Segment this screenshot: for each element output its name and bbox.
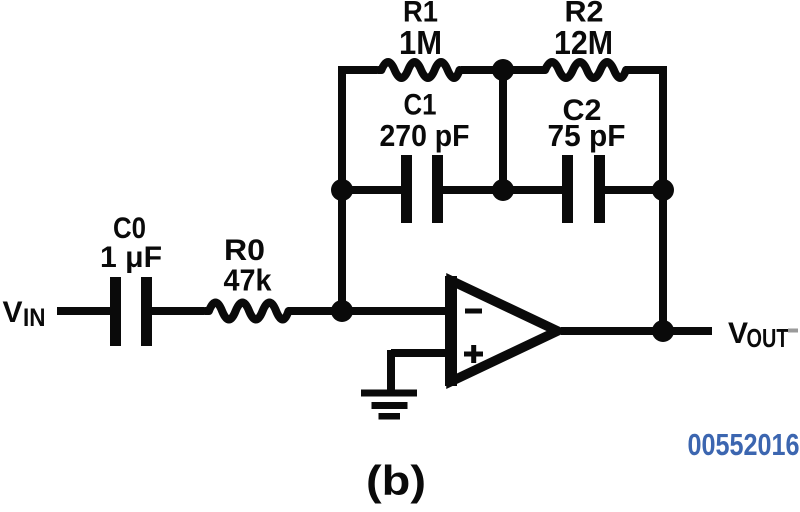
node junction dot A (R1-R2) [492,59,514,81]
wire VIN lead [57,307,110,315]
capacitor C2 [562,155,605,223]
resistor R2 [541,62,626,78]
svg-text:270 pF: 270 pF [380,118,470,153]
wire R1 to node A [461,66,503,74]
svg-text:V: V [3,296,23,329]
wire top feedback rail left segment [342,66,377,74]
svg-text:OUT: OUT [747,323,789,353]
node junction dot C2 / right rail [652,179,674,201]
right vertical rail [659,66,667,331]
svg-text:C1: C1 [404,89,437,122]
wire node A to R2 [503,66,541,74]
capacitor C1 [401,155,443,223]
node junction dot B (C1-C2) [492,179,514,201]
capacitor C0 [110,277,152,346]
svg-text:75 pF: 75 pF [548,118,626,153]
svg-text:12M: 12M [554,24,613,61]
ground [361,390,417,420]
wire C1 to node B [443,186,503,194]
op-amp U1 [451,276,558,386]
wire R2 to right rail [625,66,663,74]
wire R0 to inverting input [288,307,446,315]
resistor R0 [205,303,289,320]
node junction dot left rail / C1 [331,179,353,201]
svg-text:47k: 47k [224,263,273,298]
svg-text:(b): (b) [366,457,426,504]
wire non-inverting input [391,349,446,357]
svg-text:00552016: 00552016 [688,427,800,462]
svg-text:V: V [728,317,748,350]
wire ground stub [387,350,395,391]
wire node B to C2 [503,186,562,194]
op-amp minus pin mark [465,309,482,314]
node junction dot inverting input [331,300,353,322]
middle vertical rail [499,70,507,190]
wire left rail to C1 [342,186,401,194]
artifact dash after VOUT [788,329,798,333]
svg-text:1M: 1M [399,24,442,61]
wire C2 to right rail [605,186,663,194]
wire C0 to R0 [152,307,204,315]
svg-text:1 μF: 1 μF [100,241,162,274]
resistor R1 [378,62,460,78]
op-amp plus pin mark [464,352,483,357]
node VOUT label [728,317,789,353]
svg-text:IN: IN [23,304,46,332]
node junction dot output [652,320,674,342]
left vertical rail [338,66,346,311]
wire op-amp output [561,327,712,335]
node VIN label [3,296,46,332]
